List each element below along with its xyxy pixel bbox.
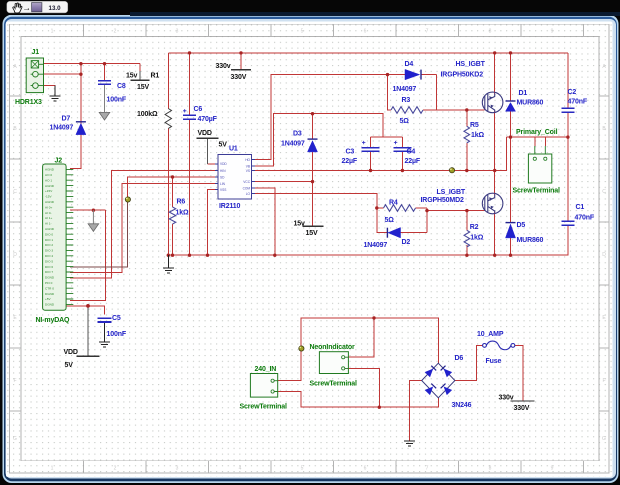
wire fuse right to 330v supply	[515, 345, 523, 401]
resistor R4 5Ohm horizontal	[384, 205, 416, 212]
connector J1 HDR1X3	[26, 58, 43, 93]
svg-text:DGND: DGND	[45, 303, 55, 307]
power bar VDD at U1	[197, 137, 219, 139]
capacitor C4 22uF polarized	[393, 148, 411, 152]
svg-text:6: 6	[364, 29, 367, 35]
svg-text:5Ω: 5Ω	[400, 118, 410, 125]
svg-text:100kΩ: 100kΩ	[137, 111, 158, 118]
analog ground arrow below C8	[99, 84, 110, 120]
svg-text:330v: 330v	[216, 63, 231, 70]
svg-text:SD: SD	[220, 175, 225, 179]
svg-text:IR2110: IR2110	[219, 203, 241, 210]
svg-text:13.0: 13.0	[49, 5, 62, 12]
svg-text:1kΩ: 1kΩ	[470, 235, 483, 242]
wire U1 VS emitter node	[252, 137, 507, 170]
wire J1 pin2 to x=80.9	[44, 73, 81, 75]
wire J1 pin1 rail to 15v stem	[44, 64, 141, 71]
svg-text:VDD: VDD	[64, 349, 78, 356]
svg-text:5V: 5V	[65, 362, 74, 369]
svg-text:3N246: 3N246	[452, 402, 472, 409]
svg-text:C4: C4	[407, 149, 416, 156]
wire SD red part to U1	[128, 177, 215, 199]
ground below C5	[99, 323, 110, 348]
wire 240 bottom pin and lower run to bridge bottom	[278, 392, 439, 408]
svg-text:22µF: 22µF	[405, 158, 421, 165]
wire R1 top and bottom	[167, 53, 169, 255]
svg-text:VB: VB	[246, 164, 250, 168]
svg-text:HIN: HIN	[220, 169, 226, 173]
svg-text:DIO 5: DIO 5	[45, 259, 53, 263]
svg-text:DIO 3: DIO 3	[45, 249, 53, 253]
svg-text:C8: C8	[117, 83, 126, 90]
svg-text:C1: C1	[576, 204, 585, 211]
screw terminal Primary_Coil	[528, 146, 551, 183]
wire C4 leads	[401, 137, 403, 171]
svg-text:240_IN: 240_IN	[255, 366, 277, 373]
wire U1 LO to gate loop R4 D2	[252, 194, 427, 233]
wire R6 leads	[172, 177, 174, 255]
op-amp U1 IR2110 body	[215, 154, 255, 199]
svg-text:5: 5	[301, 466, 304, 472]
bridge rectifier D6 3N246	[422, 363, 455, 398]
wire C8 branch top	[104, 64, 106, 80]
wire U1 VDD pin stub	[208, 163, 216, 165]
wire C3 leads	[370, 137, 372, 171]
svg-text:VDD: VDD	[220, 162, 227, 166]
diode D5 MUR860	[506, 223, 516, 238]
svg-text:R6: R6	[177, 198, 186, 205]
svg-text:HDR1X3: HDR1X3	[15, 99, 42, 106]
wire neon bottom pin	[348, 368, 379, 407]
wire primary coil pin stubs	[535, 137, 546, 146]
capacitor C1 470nF	[562, 221, 575, 225]
top black bar with tab	[0, 0, 620, 15]
svg-text:C6: C6	[194, 106, 203, 113]
svg-text:6: 6	[364, 466, 367, 472]
diode D7 1N4097	[76, 122, 86, 135]
diode D3 1N4097	[308, 139, 318, 152]
svg-text:AGND: AGND	[45, 227, 55, 231]
svg-text:AO 0: AO 0	[45, 173, 52, 177]
svg-text:C: C	[13, 189, 17, 195]
wire U1 VB bootstrap	[252, 114, 402, 166]
connector J2 pin stubs	[66, 169, 73, 304]
svg-text:4: 4	[239, 29, 242, 35]
svg-text:COM: COM	[243, 187, 251, 191]
svg-text:5Ω: 5Ω	[385, 217, 395, 224]
wire C2 leads	[567, 53, 569, 137]
svg-text:→: →	[23, 2, 32, 12]
dark VDD power stems	[88, 71, 208, 356]
svg-text:2: 2	[114, 466, 117, 472]
svg-text:1N4097: 1N4097	[364, 242, 388, 249]
wire ground rail bottom	[168, 230, 568, 255]
wire bridge left to ground	[409, 381, 421, 441]
svg-text:AGND: AGND	[45, 200, 55, 204]
wire R5 leads	[466, 110, 468, 171]
diode D1 MUR860	[506, 101, 516, 111]
node marker VS net (olive dot)	[449, 168, 454, 173]
svg-text:G: G	[13, 436, 17, 442]
wire U1 VCC pin	[252, 181, 313, 183]
svg-text:IRGPH50MD2: IRGPH50MD2	[421, 197, 464, 204]
svg-text:3: 3	[176, 29, 179, 35]
svg-text:7: 7	[426, 466, 429, 472]
power bar VDD bottom	[77, 355, 100, 357]
node marker LIN net (olive dot)	[125, 197, 130, 202]
svg-text:9: 9	[551, 29, 554, 35]
svg-text:R5: R5	[470, 122, 479, 129]
svg-text:15v: 15v	[126, 72, 137, 79]
power bar 15v mid	[303, 225, 324, 227]
ground below bridge	[404, 441, 415, 446]
wire U1 VSS to ground rail	[208, 190, 216, 256]
diode D2 1N4097 horizontal pointing left	[387, 228, 400, 238]
svg-text:DIO 2: DIO 2	[45, 243, 53, 247]
svg-text:CTR 0: CTR 0	[45, 286, 54, 290]
svg-text:AI 1+: AI 1+	[45, 216, 53, 220]
wire U1 COM to ground rail	[252, 188, 275, 255]
svg-text:DGND: DGND	[45, 276, 55, 280]
wire D3 and 15v VCC	[312, 114, 314, 227]
svg-text:470nF: 470nF	[575, 215, 595, 222]
svg-text:G: G	[602, 436, 606, 442]
svg-text:VDD: VDD	[198, 130, 212, 137]
svg-text:VCC: VCC	[243, 180, 250, 184]
wire LS emitter to ground rail	[494, 213, 496, 256]
svg-text:AI 0+: AI 0+	[45, 205, 53, 209]
svg-text:AI 0-: AI 0-	[45, 211, 52, 215]
svg-text:R4: R4	[389, 199, 398, 206]
svg-text:+15V: +15V	[45, 189, 53, 193]
resistor R6 1kOhm vertical	[169, 207, 175, 224]
fuse 10_AMP	[483, 341, 515, 350]
capacitor C2 470nF	[562, 108, 575, 112]
resistor R1 100kOhm vertical	[165, 109, 171, 129]
svg-text:D: D	[602, 252, 606, 258]
svg-text:1kΩ: 1kΩ	[176, 210, 189, 217]
svg-text:470nF: 470nF	[568, 98, 588, 105]
svg-text:8: 8	[489, 29, 492, 35]
wire HS emitter to LS collector	[494, 112, 496, 195]
wire D1 leads	[510, 53, 512, 137]
wire HS IGBT collector from rail	[494, 53, 496, 94]
svg-text:1N4097: 1N4097	[281, 140, 305, 147]
svg-text:Fuse: Fuse	[486, 358, 502, 365]
svg-text:DIO 6: DIO 6	[45, 265, 53, 269]
thumbnail	[32, 3, 42, 12]
wire switch node horizontal	[507, 136, 568, 138]
svg-text:7: 7	[426, 29, 429, 35]
svg-text:NeonIndicator: NeonIndicator	[310, 344, 356, 351]
wire C1 leads	[567, 137, 569, 255]
svg-text:5V: 5V	[219, 142, 228, 149]
wire D5 leads	[510, 137, 512, 255]
svg-text:AO 1: AO 1	[45, 178, 52, 182]
svg-text:C: C	[602, 189, 606, 195]
svg-text:ScrewTerminal: ScrewTerminal	[310, 380, 358, 387]
resistor R5 1kOhm vertical	[464, 126, 470, 143]
screw terminal 240_IN	[250, 374, 277, 398]
svg-text:DGND: DGND	[45, 292, 55, 296]
svg-text:1kΩ: 1kΩ	[471, 132, 484, 139]
analog ground arrow J2 AGND	[88, 210, 99, 231]
svg-text:1N4097: 1N4097	[393, 86, 417, 93]
svg-text:D2: D2	[402, 239, 411, 246]
power bar 330v top	[231, 69, 251, 71]
wire bridge right to fuse	[455, 345, 483, 380]
capacitor C6 470uF polarized	[183, 115, 196, 119]
screw terminal NeonIndicator	[319, 352, 348, 374]
svg-text:ScrewTerminal: ScrewTerminal	[513, 187, 561, 194]
svg-text:LS_IGBT: LS_IGBT	[437, 189, 466, 196]
svg-text:AGND: AGND	[45, 184, 55, 188]
diode D4 1N4097 horizontal pointing right	[405, 69, 421, 79]
svg-text:22µF: 22µF	[342, 158, 358, 165]
hand tool icon	[13, 3, 22, 13]
svg-text:D7: D7	[62, 115, 71, 122]
svg-text:1: 1	[51, 466, 54, 472]
svg-text:330V: 330V	[231, 74, 247, 81]
power bar 330v bottom	[511, 400, 535, 402]
svg-text:DIO 1: DIO 1	[45, 238, 53, 242]
svg-text:3: 3	[176, 466, 179, 472]
wire 240 top pin riser to bridge top	[278, 318, 439, 381]
svg-text:1: 1	[51, 29, 54, 35]
svg-text:Primary_Coil: Primary_Coil	[516, 129, 558, 136]
svg-text:+5V: +5V	[45, 297, 52, 301]
svg-text:IRGPH50KD2: IRGPH50KD2	[441, 71, 484, 78]
svg-text:470µF: 470µF	[198, 116, 218, 123]
wire HS gate	[437, 109, 485, 111]
svg-text:PFI 0: PFI 0	[45, 281, 53, 285]
svg-text:DIO 0: DIO 0	[45, 232, 53, 236]
svg-text:AGND: AGND	[45, 168, 55, 172]
svg-text:D4: D4	[405, 61, 414, 68]
svg-text:D3: D3	[293, 130, 302, 137]
wire U1 HO to gate loop D4 R3	[252, 75, 437, 160]
svg-text:C2: C2	[568, 89, 577, 96]
svg-text:D5: D5	[517, 222, 526, 229]
svg-text:15V: 15V	[137, 84, 149, 91]
svg-text:C5: C5	[112, 315, 121, 322]
svg-text:U1: U1	[229, 146, 238, 153]
svg-text:LO: LO	[246, 192, 251, 196]
svg-text:2: 2	[114, 29, 117, 35]
wire C6 leads	[189, 53, 191, 255]
node marker 240 net (olive dot)	[299, 346, 304, 351]
svg-text:VS: VS	[246, 169, 250, 173]
ground below J1	[49, 86, 60, 102]
resistor R2 1kOhm vertical	[464, 230, 470, 247]
dark wire SD segment with net marker	[70, 199, 128, 267]
svg-text:R1: R1	[151, 73, 160, 80]
svg-text:J2: J2	[55, 158, 63, 165]
power bar 15v left	[131, 79, 150, 81]
svg-text:C3: C3	[346, 149, 355, 156]
svg-text:15v: 15v	[294, 220, 305, 227]
wire J2 bottom pin to C5	[63, 306, 105, 315]
svg-text:DIO 4: DIO 4	[45, 254, 53, 258]
svg-text:ScrewTerminal: ScrewTerminal	[240, 403, 288, 410]
wire R2 leads	[466, 211, 468, 256]
svg-text:HS_IGBT: HS_IGBT	[456, 61, 486, 68]
svg-text:MUR860: MUR860	[517, 100, 544, 107]
svg-text:J1: J1	[32, 49, 40, 56]
svg-text:F: F	[13, 378, 16, 384]
svg-text:DIO 7: DIO 7	[45, 270, 53, 274]
svg-text:-15V: -15V	[45, 195, 52, 199]
ground on main rail	[163, 255, 174, 273]
svg-text:LIN: LIN	[220, 182, 226, 186]
wire HIN J2 to U1	[70, 171, 215, 278]
svg-text:100nF: 100nF	[107, 96, 127, 103]
wire 330v top rail	[168, 52, 568, 54]
resistor R3 5Ohm horizontal	[391, 107, 423, 114]
svg-text:MUR860: MUR860	[517, 237, 544, 244]
svg-text:D6: D6	[455, 355, 464, 362]
svg-text:D1: D1	[519, 90, 528, 97]
svg-text:5: 5	[301, 29, 304, 35]
svg-text:4: 4	[239, 466, 242, 472]
svg-text:R2: R2	[470, 224, 479, 231]
wire LS gate	[427, 210, 485, 212]
svg-text:R3: R3	[402, 97, 411, 104]
wire AGND chain J2	[70, 210, 106, 300]
svg-text:330V: 330V	[514, 405, 530, 412]
svg-text:9: 9	[551, 466, 554, 472]
svg-text:VSS: VSS	[220, 188, 226, 192]
connector J2 pin names	[45, 168, 55, 307]
transistor LS_IGBT IRGPH50MD2	[482, 193, 503, 214]
svg-text:F: F	[602, 378, 605, 384]
svg-text:AI 1-: AI 1-	[45, 222, 52, 226]
svg-text:15V: 15V	[306, 230, 318, 237]
connector J2 NI-myDAQ	[43, 164, 67, 310]
wire LIN J2 to U1	[70, 184, 215, 273]
capacitor C3 22uF polarized	[362, 148, 380, 152]
wire 330v supply stem	[240, 53, 242, 70]
svg-text:100nF: 100nF	[107, 331, 127, 338]
wire neon top pin	[348, 318, 374, 357]
svg-text:1N4097: 1N4097	[50, 125, 74, 132]
wire J1 pin3 to ground G1	[44, 86, 55, 96]
svg-text:10_AMP: 10_AMP	[477, 331, 504, 338]
svg-text:D: D	[13, 252, 17, 258]
transistor HS_IGBT IRGPH50KD2	[482, 92, 503, 113]
wire vertical J1/D7 down to J2 pin 1	[70, 64, 81, 169]
svg-text:330v: 330v	[499, 395, 514, 402]
capacitor C8 100nF	[98, 81, 111, 85]
svg-text:HO: HO	[245, 158, 250, 162]
svg-text:NI-myDAQ: NI-myDAQ	[36, 317, 71, 324]
svg-text:8: 8	[489, 466, 492, 472]
capacitor C5 100nF	[98, 318, 112, 322]
